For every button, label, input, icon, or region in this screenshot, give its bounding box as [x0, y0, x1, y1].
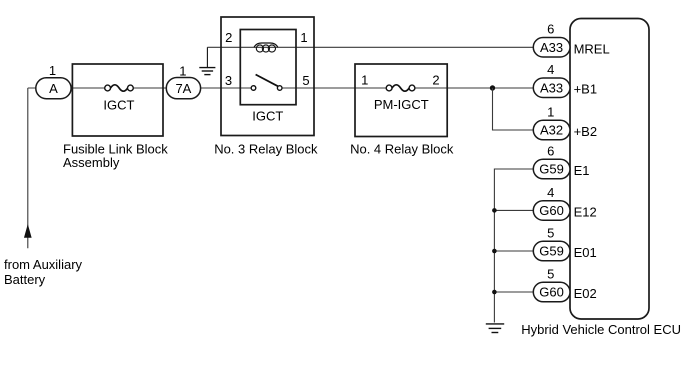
No. 3 Relay Block outer box [221, 17, 314, 136]
svg-text:No. 3 Relay Block: No. 3 Relay Block [214, 142, 318, 157]
junction node E01 [492, 249, 497, 254]
Hybrid Vehicle Control ECU box [570, 19, 649, 320]
connector G59 (E1) [533, 159, 570, 179]
svg-text:from Auxiliary: from Auxiliary [4, 257, 83, 272]
svg-text:G60: G60 [539, 285, 564, 300]
svg-text:+B2: +B2 [574, 124, 598, 139]
fusible link block assembly box [72, 64, 163, 136]
svg-text:+B1: +B1 [574, 82, 598, 97]
svg-text:6: 6 [547, 144, 554, 159]
junction node to +B2 [490, 85, 495, 90]
svg-text:Assembly: Assembly [63, 155, 120, 170]
svg-text:2: 2 [225, 30, 232, 45]
wire: branch to +B2 [493, 88, 534, 130]
junction node E02 [492, 290, 497, 295]
svg-text:A33: A33 [540, 80, 563, 95]
ground (ECU E lines) [486, 324, 504, 333]
svg-text:E1: E1 [574, 163, 590, 178]
wire: switch right contact to fuse2 [280, 87, 389, 89]
svg-text:6: 6 [547, 22, 554, 37]
relay coil [254, 43, 278, 52]
svg-text:E12: E12 [574, 204, 597, 219]
fuse PM-IGCT symbol [386, 85, 415, 91]
fuse IGCT symbol [105, 85, 134, 91]
svg-text:PM-IGCT: PM-IGCT [374, 97, 429, 112]
svg-text:1: 1 [49, 63, 56, 78]
junction node E12 [492, 208, 497, 213]
svg-text:1: 1 [547, 105, 554, 120]
svg-text:2: 2 [432, 73, 439, 88]
svg-text:Hybrid Vehicle Control ECU: Hybrid Vehicle Control ECU [521, 322, 681, 337]
connector G59 (E01) [533, 241, 570, 260]
wire: fuse2 to +B1 connector [412, 87, 534, 89]
svg-text:7A: 7A [175, 81, 191, 96]
svg-text:1: 1 [179, 64, 186, 79]
connector G60 (E12) [533, 201, 570, 221]
svg-text:A32: A32 [540, 123, 563, 138]
wire: main feed y=88 segment A-oval to fuse1 [28, 87, 108, 89]
connector A33 (+B1) [533, 78, 570, 98]
wire: battery feed vertical with up arrow [27, 88, 29, 248]
wire: E12 stub [494, 209, 533, 211]
arrowhead up [25, 226, 32, 238]
svg-text:E01: E01 [574, 245, 597, 260]
svg-text:G59: G59 [539, 244, 564, 259]
svg-text:A: A [49, 81, 58, 96]
svg-text:A33: A33 [540, 40, 563, 55]
svg-text:IGCT: IGCT [103, 97, 134, 112]
svg-text:4: 4 [547, 62, 554, 77]
svg-text:Battery: Battery [4, 272, 46, 287]
svg-text:3: 3 [225, 73, 232, 88]
No. 4 Relay Block box [355, 64, 447, 137]
node A oval [36, 78, 71, 99]
relay switch contacts [251, 75, 282, 91]
wire: E01 stub [494, 250, 533, 252]
svg-text:E02: E02 [574, 286, 597, 301]
wire: E ground bus [494, 169, 533, 323]
wire: relay coil line y=47.3 from ground corner to MREL [207, 46, 533, 48]
svg-text:MREL: MREL [574, 41, 610, 56]
svg-text:G60: G60 [539, 203, 564, 218]
connector A33 (MREL) [533, 38, 570, 58]
connector A32 (+B2) [533, 120, 570, 140]
relay inner box [240, 30, 296, 105]
wire: E02 stub [494, 291, 533, 293]
svg-text:4: 4 [547, 185, 554, 200]
svg-text:5: 5 [547, 226, 554, 241]
svg-text:G59: G59 [539, 162, 564, 177]
svg-text:1: 1 [300, 30, 307, 45]
ground (relay coil) [199, 47, 215, 74]
wire: fuse1 to switch left contact [130, 87, 253, 89]
svg-text:5: 5 [302, 73, 309, 88]
svg-text:5: 5 [547, 267, 554, 282]
svg-text:IGCT: IGCT [252, 108, 283, 123]
svg-text:No. 4 Relay Block: No. 4 Relay Block [350, 142, 454, 157]
connector G60 (E02) [533, 282, 570, 302]
node 7A oval [166, 78, 200, 99]
svg-text:1: 1 [361, 73, 368, 88]
